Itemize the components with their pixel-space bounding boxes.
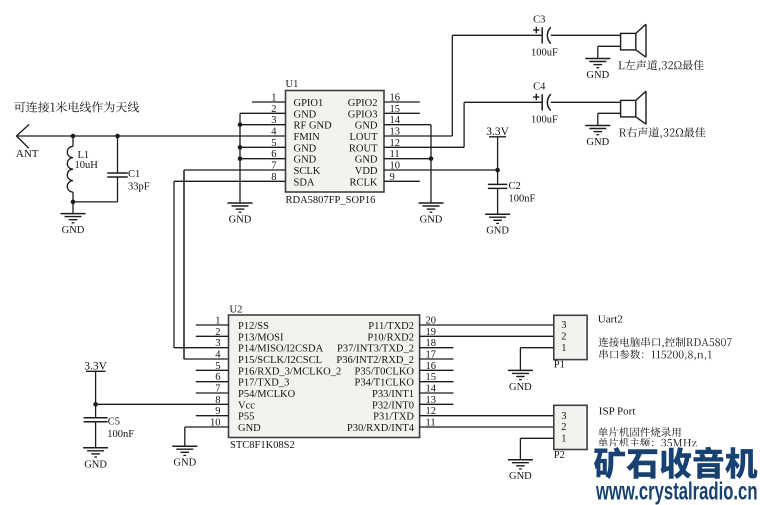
svg-text:GND: GND (294, 109, 317, 120)
svg-text:C5: C5 (108, 417, 120, 428)
svg-text:GND: GND (62, 225, 85, 236)
svg-text:4: 4 (215, 349, 221, 360)
svg-text:P34/T1CLKO: P34/T1CLKO (354, 378, 414, 389)
svg-text:P32/INT0: P32/INT0 (372, 400, 414, 411)
svg-text:P17/TXD_3: P17/TXD_3 (238, 378, 289, 389)
svg-text:2: 2 (561, 332, 566, 343)
svg-text:P33/INT1: P33/INT1 (372, 389, 414, 400)
svg-text:VDD: VDD (355, 166, 378, 177)
svg-text:GND: GND (229, 215, 252, 226)
svg-text:P10/RXD2: P10/RXD2 (367, 332, 414, 343)
svg-text:P37/INT3/TXD_2: P37/INT3/TXD_2 (337, 344, 414, 355)
svg-text:1: 1 (561, 434, 566, 445)
svg-text:GPIO2: GPIO2 (348, 98, 378, 109)
svg-text:P36/INT2/RXD_2: P36/INT2/RXD_2 (336, 355, 414, 366)
svg-text:2: 2 (561, 422, 566, 433)
svg-text:GND: GND (486, 226, 509, 237)
svg-text:ISP Port: ISP Port (599, 406, 636, 418)
svg-text:STC8F1K08S2: STC8F1K08S2 (230, 440, 295, 451)
svg-text:P1: P1 (554, 360, 565, 371)
svg-text:C1: C1 (128, 169, 140, 180)
svg-text:33pF: 33pF (128, 181, 150, 192)
svg-text:P12/SS: P12/SS (238, 321, 269, 332)
svg-text:100nF: 100nF (509, 193, 536, 204)
svg-text:P2: P2 (554, 450, 565, 461)
svg-text:RCLK: RCLK (349, 177, 377, 188)
svg-text:Uart2: Uart2 (598, 314, 623, 326)
svg-text:3: 3 (561, 320, 566, 331)
svg-text:P30/RXD/INT4: P30/RXD/INT4 (347, 423, 415, 434)
svg-text:P31/TXD: P31/TXD (373, 412, 414, 423)
svg-text:GPIO3: GPIO3 (348, 109, 378, 120)
svg-text:GND: GND (509, 382, 532, 393)
svg-text:C3: C3 (533, 15, 545, 26)
svg-text:100uF: 100uF (531, 48, 558, 59)
svg-text:ANT: ANT (16, 148, 39, 160)
svg-text:100uF: 100uF (531, 115, 558, 126)
svg-text:SDA: SDA (294, 177, 315, 188)
svg-text:P55: P55 (238, 412, 254, 423)
svg-text:P16/RXD_3/MCLKO_2: P16/RXD_3/MCLKO_2 (238, 366, 341, 377)
svg-text:P13/MOSI: P13/MOSI (238, 332, 284, 343)
svg-text:Vcc: Vcc (238, 400, 255, 411)
svg-text:3.3V: 3.3V (84, 360, 107, 372)
svg-text:GND: GND (420, 215, 443, 226)
svg-text:U1: U1 (286, 79, 299, 90)
svg-text:3: 3 (215, 338, 220, 349)
svg-text:LOUT: LOUT (350, 132, 379, 143)
svg-text:P35/T0CLKO: P35/T0CLKO (354, 366, 414, 377)
svg-text:100nF: 100nF (107, 429, 134, 440)
svg-text:FMIN: FMIN (294, 132, 321, 143)
svg-text:1: 1 (561, 343, 566, 354)
svg-text:GND: GND (509, 471, 532, 482)
svg-text:GND: GND (355, 155, 378, 166)
svg-text:GND: GND (586, 137, 609, 148)
svg-text:P54/MCLKO: P54/MCLKO (238, 389, 296, 400)
svg-text:P11/TXD2: P11/TXD2 (368, 321, 414, 332)
svg-text:RDA5807FP_SOP16: RDA5807FP_SOP16 (286, 195, 376, 206)
svg-text:3: 3 (561, 411, 566, 422)
svg-text:U2: U2 (230, 305, 243, 316)
svg-text:GND: GND (294, 155, 317, 166)
svg-text:GND: GND (84, 459, 107, 470)
svg-text:4: 4 (271, 126, 277, 137)
svg-text:GND: GND (173, 458, 196, 469)
svg-text:RF GND: RF GND (294, 121, 333, 132)
svg-text:SCLK: SCLK (294, 166, 321, 177)
svg-text:P14/MISO/I2CSDA: P14/MISO/I2CSDA (238, 344, 324, 355)
svg-text:P15/SCLK/I2CSCL: P15/SCLK/I2CSCL (238, 355, 322, 366)
svg-text:C4: C4 (533, 82, 546, 93)
svg-text:www.crystalradio.cn: www.crystalradio.cn (595, 478, 757, 505)
svg-text:GND: GND (238, 423, 261, 434)
svg-text:GPIO1: GPIO1 (294, 98, 324, 109)
svg-text:GND: GND (294, 143, 317, 154)
svg-text:GND: GND (355, 121, 378, 132)
svg-text:ROUT: ROUT (349, 143, 378, 154)
svg-text:C2: C2 (509, 181, 521, 192)
svg-text:10uH: 10uH (75, 160, 99, 171)
svg-text:GND: GND (586, 70, 609, 81)
